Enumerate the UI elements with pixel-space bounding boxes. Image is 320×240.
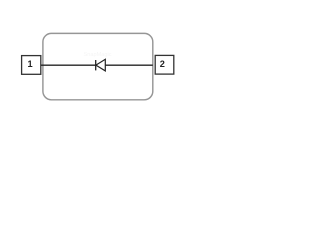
svg-text:2: 2	[160, 59, 165, 69]
component body U1	[43, 33, 153, 99]
pin 2 box	[155, 55, 174, 74]
pin 1 box	[22, 56, 41, 75]
diode D1 cathode bar	[95, 60, 97, 70]
diode D1 triangle (anode)	[96, 59, 105, 71]
svg-text:1: 1	[28, 59, 33, 69]
svg-text:SnapMagic: SnapMagic	[84, 52, 112, 58]
wire from diode anode to pin 2	[105, 64, 153, 66]
wire from pin 1 to diode cathode	[41, 64, 96, 66]
